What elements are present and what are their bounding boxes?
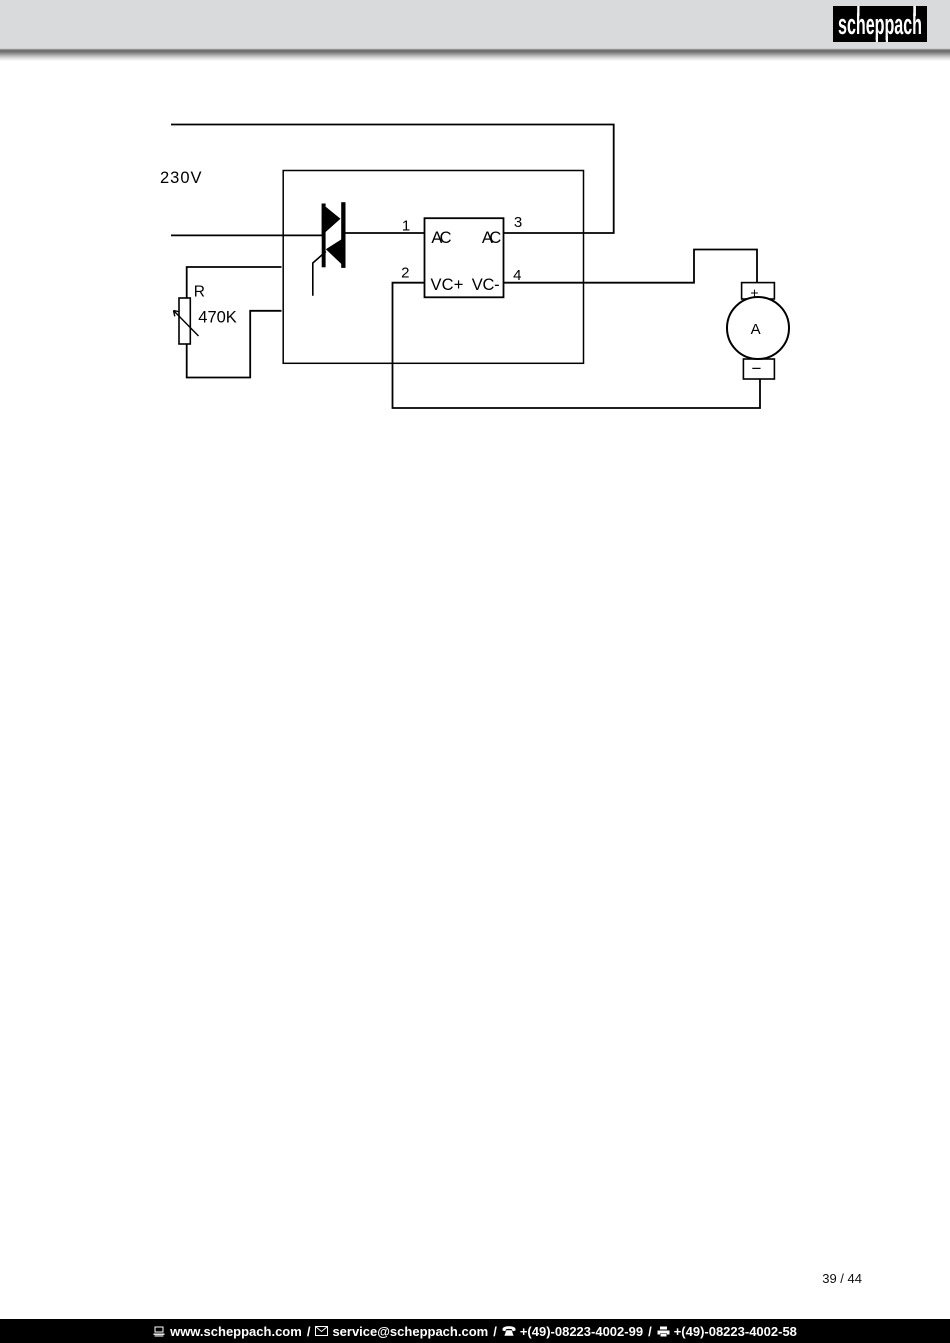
motor body circle A (727, 297, 789, 359)
controller outline box (283, 171, 583, 364)
wire: mains lower lead to triac (171, 234, 322, 236)
svg-text:VC-: VC- (472, 276, 500, 294)
svg-text:1: 1 (402, 217, 410, 234)
circuit schematic (0, 0, 950, 500)
triac Q1 lower triangle (326, 237, 346, 268)
logo h ascender stems (857, 6, 859, 16)
triac Q1 left bar (322, 204, 326, 268)
svg-text:4: 4 (513, 267, 521, 284)
header gray bar (0, 0, 950, 48)
wire: R bottom lead to controller box (187, 311, 282, 378)
footer contact bar (0, 1319, 950, 1343)
page number (822, 1271, 862, 1286)
triac Q1 upper triangle (322, 204, 341, 236)
svg-text:2: 2 (401, 265, 409, 282)
telephone icon (502, 1326, 516, 1336)
triac gate lead (313, 252, 326, 296)
svg-text:3: 3 (514, 214, 522, 231)
wire: R top lead to controller box (187, 267, 282, 298)
computer icon (153, 1326, 166, 1337)
svg-text:A: A (751, 321, 761, 338)
svg-text:AC: AC (482, 229, 501, 247)
motor minus terminal box (743, 359, 774, 379)
triac Q1 right bar (341, 202, 345, 268)
phase control module U1 box (425, 218, 504, 297)
potentiometer arrow (174, 311, 199, 337)
svg-text:−: − (752, 359, 762, 378)
wire: triac to pin 1 (345, 232, 425, 234)
svg-text:+: + (750, 285, 758, 301)
svg-text:VC+: VC+ (431, 276, 464, 294)
svg-text:R: R (194, 284, 205, 301)
fax icon (657, 1326, 670, 1337)
svg-text:230V: 230V (160, 169, 202, 187)
wire: pin 4 to motor plus terminal (504, 250, 758, 283)
potentiometer R body (179, 298, 190, 344)
header shadow (0, 48, 950, 61)
logo p descender stems (876, 36, 878, 42)
svg-text:470K: 470K (198, 309, 237, 327)
wire: pin 2 lead down and across bottom (393, 283, 761, 408)
motor plus terminal box (742, 283, 775, 299)
scheppach logo (833, 6, 927, 42)
svg-text:AC: AC (431, 229, 451, 247)
wire: mains top conductor from left to pin 3 (171, 125, 614, 234)
envelope icon (315, 1326, 328, 1336)
